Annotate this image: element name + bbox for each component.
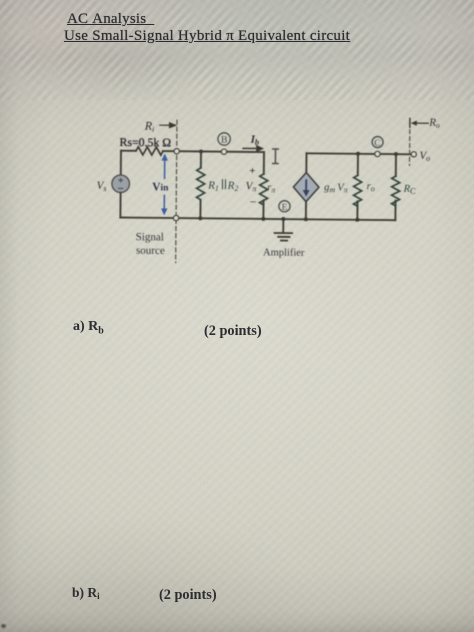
svg-text:Vin: Vin bbox=[152, 181, 169, 193]
dependent source gmVpi (diamond) bbox=[305, 153, 308, 219]
svg-text:Vπ: Vπ bbox=[246, 180, 258, 193]
junction dot R1R2 bottom bbox=[198, 216, 202, 220]
svg-text:Amplifier: Amplifier bbox=[263, 247, 305, 258]
junction dot RC top bbox=[394, 152, 398, 156]
svg-text:Rs=0.5k Ω: Rs=0.5k Ω bbox=[120, 135, 172, 149]
svg-text:B: B bbox=[221, 135, 228, 146]
svg-text:R2: R2 bbox=[227, 180, 239, 193]
junction dot r_o bottom bbox=[355, 218, 359, 222]
junction dot r_pi bottom bbox=[261, 217, 265, 221]
svg-text:RC: RC bbox=[403, 184, 417, 196]
node B circle bbox=[218, 133, 231, 146]
svg-text:gm Vπ: gm Vπ bbox=[324, 182, 349, 194]
question a bbox=[73, 319, 104, 337]
junction dot r_o top bbox=[356, 152, 360, 156]
junction dot R1R2 top bbox=[199, 149, 203, 153]
node E circle bbox=[279, 201, 290, 212]
source Vs bbox=[112, 175, 130, 193]
svg-text:E: E bbox=[282, 203, 288, 213]
dashed boundary line bbox=[176, 120, 177, 262]
svg-text:Ri: Ri bbox=[144, 119, 155, 134]
wire: C rail bbox=[306, 153, 410, 154]
svg-text:Vo: Vo bbox=[419, 150, 430, 163]
wire: Vs top lead bbox=[120, 151, 122, 175]
resistor r_o bbox=[356, 154, 359, 220]
Ro marker: tick, arrow, dashes bbox=[409, 118, 411, 127]
title bbox=[67, 11, 154, 28]
open node C on wire bbox=[375, 151, 380, 156]
svg-text:ro: ro bbox=[367, 181, 375, 193]
wire: r_pi top lead (corner) bbox=[263, 152, 265, 174]
ground bbox=[274, 219, 292, 241]
svg-text:R1: R1 bbox=[207, 180, 219, 193]
svg-text:Ib: Ib bbox=[250, 134, 260, 147]
Vin arrow (blue) bbox=[163, 158, 166, 212]
Ri arrow bbox=[160, 123, 176, 128]
Ib arrow bbox=[243, 146, 262, 151]
resistor R1R2 bbox=[199, 151, 202, 218]
wire: Vs bottom lead bbox=[119, 193, 121, 218]
open node on dashed line bottom bbox=[173, 215, 178, 220]
wire: top rail left (Vs to r_pi corner) bbox=[121, 151, 264, 152]
junction dot ground bbox=[281, 217, 285, 221]
junction dot diamond bottom bbox=[304, 217, 308, 221]
question b bbox=[72, 585, 100, 601]
open node B on wire bbox=[221, 149, 226, 154]
svg-text:C: C bbox=[374, 139, 380, 149]
svg-text:Signal: Signal bbox=[136, 231, 164, 243]
resistor Rs bbox=[136, 147, 163, 155]
svg-text:Vs: Vs bbox=[97, 180, 107, 193]
node C circle bbox=[372, 137, 383, 148]
svg-text:Ro: Ro bbox=[428, 117, 440, 130]
svg-text:source: source bbox=[136, 245, 165, 257]
svg-text:−: − bbox=[249, 195, 256, 209]
wire: bottom rail bbox=[120, 217, 395, 220]
resistor r_pi bbox=[259, 174, 267, 205]
text cursor artifact bbox=[273, 149, 279, 164]
speck bottom-left bbox=[1, 624, 6, 628]
resistor RC bbox=[394, 154, 397, 220]
svg-text:+: + bbox=[249, 165, 255, 177]
svg-text:rπ: rπ bbox=[267, 182, 276, 194]
output terminal Vo bbox=[411, 152, 416, 157]
open node on dashed line top bbox=[174, 149, 179, 154]
